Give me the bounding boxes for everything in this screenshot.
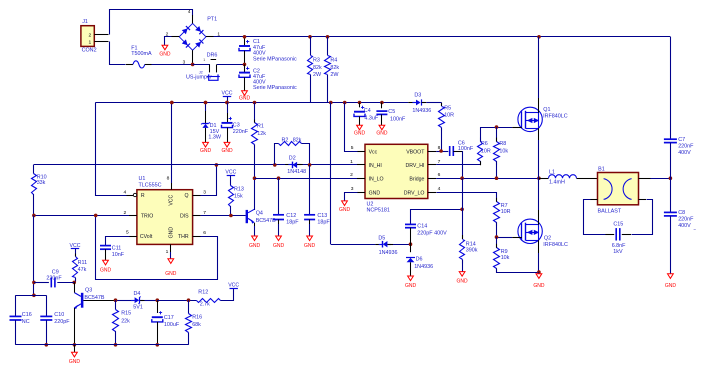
U1 pin7 DIS lead: [193, 215, 201, 217]
zener D4 5V1: [131, 300, 134, 302]
svg-text:33k: 33k: [37, 180, 46, 186]
wire Q3 collector: [74, 282, 76, 292]
svg-text:B1: B1: [598, 167, 605, 173]
capacitor C10 220pF: [46, 295, 48, 316]
ground right column: [668, 274, 674, 279]
svg-text:18pF: 18pF: [286, 220, 299, 226]
ground R14: [459, 272, 465, 277]
svg-text:PT1: PT1: [207, 17, 217, 23]
ground D6: [408, 276, 414, 281]
svg-text:5V1: 5V1: [133, 304, 143, 310]
U1 pin2 TRIG lead: [129, 215, 137, 217]
svg-text:2: 2: [88, 32, 91, 38]
svg-text:GND: GND: [165, 271, 177, 277]
svg-text:82k: 82k: [293, 138, 302, 144]
wire Q4 collector: [254, 208, 256, 211]
jumper DR6 stub left: [209, 64, 211, 72]
svg-text:IRF840LC: IRF840LC: [543, 242, 568, 248]
svg-text:C13: C13: [317, 213, 327, 219]
svg-text:Q: Q: [185, 193, 189, 199]
svg-text:100nF: 100nF: [458, 146, 474, 152]
svg-text:CVolt: CVolt: [140, 234, 153, 240]
svg-text:IN_LO: IN_LO: [369, 177, 384, 183]
U1 pin8 riser to VCC rail: [170, 101, 174, 105]
capacitor C7 220nF 400V: [664, 138, 677, 140]
wire TRIG line: [34, 215, 129, 217]
junction R11 C9 Q3: [72, 281, 76, 285]
U2 pin5 lead: [357, 151, 365, 153]
svg-text:10R: 10R: [501, 209, 511, 215]
svg-text:2.7k: 2.7k: [200, 302, 210, 308]
svg-text:6.8nF: 6.8nF: [612, 243, 626, 249]
wire rail left drop to U1 reset: [96, 103, 127, 196]
svg-text:C7: C7: [678, 137, 685, 143]
wire Q2 drain from bridge node: [538, 178, 540, 210]
capacitor C6 100nF: [449, 146, 451, 156]
svg-text:7: 7: [438, 159, 441, 165]
svg-text:100nF: 100nF: [390, 116, 406, 122]
wire fuse to bridge bottom: [152, 64, 193, 66]
wire Q3 base line: [83, 300, 115, 302]
svg-text:R5: R5: [444, 106, 451, 112]
wire VCC rail: [95, 102, 408, 104]
wire bridge output B+ rail: [214, 36, 671, 38]
svg-text:C3: C3: [233, 123, 240, 129]
wire Q2 source to ground: [538, 240, 540, 253]
svg-text:C10: C10: [54, 312, 64, 318]
ground C5: [379, 125, 385, 130]
svg-text:D4: D4: [134, 291, 141, 297]
svg-text:C1: C1: [253, 39, 260, 45]
svg-text:82k: 82k: [330, 65, 339, 71]
svg-text:R7: R7: [501, 203, 508, 209]
svg-text:NCP5181: NCP5181: [367, 208, 390, 214]
svg-text:GND: GND: [369, 190, 381, 196]
U1 pin3 Q lead: [193, 195, 201, 197]
diode D5 1N4936: [375, 244, 382, 246]
wire DRV_HI to R6: [436, 164, 480, 166]
svg-text:DR6: DR6: [207, 52, 218, 58]
U2 pin6 lead: [428, 178, 436, 180]
svg-text:Bridge: Bridge: [409, 177, 424, 183]
svg-text:J1: J1: [82, 19, 88, 25]
svg-text:GND: GND: [69, 359, 81, 365]
U1 pin6 THR lead: [193, 236, 201, 238]
svg-text:IRF840LC: IRF840LC: [543, 114, 568, 120]
U1 pin5 CVolt lead: [129, 236, 137, 238]
junction C1/C2 mid: [243, 63, 247, 67]
svg-text:1: 1: [350, 159, 353, 165]
wire J1 pin1 to fuse: [110, 42, 126, 65]
IC U2 NCP5181: [365, 144, 428, 198]
resistor R12 2.7k: [197, 299, 221, 303]
svg-text:US-jumper: US-jumper: [186, 74, 212, 80]
svg-text:DRV_LO: DRV_LO: [404, 190, 425, 196]
wire ballast lower-right loop: [639, 199, 647, 201]
svg-text:5: 5: [126, 230, 129, 236]
transistor Q3 BC547B: [81, 293, 84, 308]
svg-text:GND: GND: [159, 51, 171, 57]
svg-text:R4: R4: [330, 58, 337, 64]
svg-text:U2: U2: [367, 201, 374, 207]
capacitor C12 18pF: [277, 176, 281, 180]
svg-text:BALLAST: BALLAST: [598, 208, 622, 214]
svg-text:1N4936: 1N4936: [414, 264, 433, 270]
resistor R11 47k: [73, 257, 78, 278]
ground C12: [276, 236, 282, 241]
svg-text:220nF: 220nF: [678, 144, 694, 150]
svg-text:1.4mH: 1.4mH: [549, 179, 565, 185]
wire Q up to IN_HI line: [201, 165, 217, 196]
svg-text:Serie MPanasonic: Serie MPanasonic: [253, 85, 297, 91]
wire GND3: [345, 193, 358, 201]
svg-text:400V: 400V: [678, 150, 691, 156]
svg-text:C17: C17: [164, 315, 174, 321]
svg-text:2: 2: [350, 172, 353, 178]
bridge top lead: [192, 15, 194, 23]
capacitor C8 220nF 400V: [664, 211, 677, 213]
svg-text:VCC: VCC: [225, 170, 236, 176]
svg-text:C14: C14: [417, 223, 427, 229]
junction D5 D6 C14: [409, 242, 413, 246]
resistor R14 390k: [462, 178, 464, 209]
svg-text:5: 5: [351, 145, 354, 151]
svg-text:GND: GND: [100, 267, 112, 273]
diode D2 1N4148: [285, 164, 292, 166]
svg-text:8: 8: [167, 175, 170, 181]
svg-text:3: 3: [351, 186, 354, 192]
wire IN_HI line: [34, 164, 365, 166]
svg-text:68k: 68k: [192, 322, 201, 328]
svg-text:10nF: 10nF: [112, 252, 125, 258]
svg-text:R1: R1: [257, 124, 264, 130]
ground Q2 source: [538, 272, 540, 274]
resistor R6 10R: [480, 161, 482, 165]
ground D1: [203, 142, 209, 147]
svg-text:D6: D6: [416, 256, 423, 262]
wire to D5: [331, 244, 376, 246]
ground U1 pin1: [168, 259, 174, 264]
wire Q1 drain from B+ rail: [537, 35, 541, 39]
svg-text:1N4936: 1N4936: [412, 108, 431, 114]
svg-text:4.3uF: 4.3uF: [364, 115, 378, 121]
bridge left lead: [172, 36, 180, 38]
svg-text:C5: C5: [388, 109, 395, 115]
U2 pin1 lead: [357, 164, 365, 166]
svg-text:C15: C15: [613, 222, 623, 228]
svg-text:GND: GND: [665, 283, 677, 289]
svg-text:1kV: 1kV: [613, 249, 623, 255]
svg-text:R: R: [141, 193, 145, 199]
svg-text:1: 1: [203, 58, 205, 62]
svg-text:R6: R6: [481, 141, 488, 147]
svg-text:220pF: 220pF: [54, 319, 70, 325]
svg-text:Serie MPanasonic: Serie MPanasonic: [253, 56, 297, 62]
svg-text:C4: C4: [364, 108, 371, 114]
bridge rectifier PT1: [179, 23, 206, 50]
resistor R1 12k: [253, 101, 257, 105]
svg-text:220nF: 220nF: [46, 276, 62, 282]
wire Vcc riser to rail: [343, 101, 347, 105]
U2 pin4 lead: [428, 192, 436, 194]
svg-text:C12: C12: [286, 213, 296, 219]
svg-text:4: 4: [123, 190, 126, 196]
svg-text:C11: C11: [112, 245, 122, 251]
svg-text:1: 1: [88, 40, 91, 46]
MOSFET Q2 IRF840LC: [518, 219, 542, 243]
capacitor C17 100uF: [156, 298, 160, 302]
svg-text:VBOOT: VBOOT: [406, 149, 425, 155]
svg-text:C9: C9: [52, 269, 59, 275]
wire bottom rail: [16, 344, 189, 346]
capacitor C14 220pF 400V: [405, 223, 416, 225]
U1 pin4 bubble: [133, 193, 136, 196]
capacitor C3 220nF: [225, 101, 229, 105]
lamp B1 BALLAST: [598, 173, 639, 205]
U2 pin3 lead: [357, 192, 365, 194]
svg-text:82k: 82k: [313, 65, 322, 71]
capacitor C9 220nF: [34, 282, 49, 284]
wire J1 pin2 to bridge top: [110, 10, 193, 35]
svg-text:100uF: 100uF: [164, 322, 180, 328]
svg-text:GND: GND: [405, 283, 417, 289]
svg-text:TRIO: TRIO: [141, 213, 153, 219]
svg-text:C16: C16: [22, 312, 32, 318]
svg-text:GND: GND: [200, 148, 212, 154]
svg-text:GND: GND: [239, 96, 251, 102]
svg-text:400V: 400V: [678, 223, 691, 229]
svg-text:220pF 400V: 220pF 400V: [417, 231, 447, 237]
svg-text:Q2: Q2: [544, 235, 551, 241]
fuse F1 T500mA: [126, 64, 133, 66]
svg-text:Q1: Q1: [543, 107, 550, 113]
transistor Q4 BC547B: [246, 210, 248, 223]
wire DIS line: [201, 215, 246, 217]
bridge bottom lead: [192, 50, 194, 64]
svg-text:IN_HI: IN_HI: [369, 163, 382, 169]
svg-text:2W: 2W: [313, 72, 322, 78]
svg-text:TLC555C: TLC555C: [139, 182, 162, 188]
svg-text:18pF: 18pF: [317, 220, 330, 226]
wire TRIG down to timing node: [33, 215, 35, 295]
resistor R5 10R: [441, 103, 443, 107]
zener D1 15V 1.3W: [204, 101, 208, 105]
connector J1: [81, 26, 94, 47]
wire bridge AC2 to ground: [165, 37, 172, 46]
wire gate1 line: [480, 127, 512, 129]
resistor R3 82k 2W: [308, 35, 312, 39]
wire C6 down to bridge node: [462, 151, 464, 178]
svg-text:GND: GND: [169, 227, 175, 239]
inductor L1 1.4mH: [539, 178, 549, 180]
svg-text:Q3: Q3: [85, 287, 92, 293]
svg-text:VCC: VCC: [169, 194, 175, 205]
svg-text:VCC: VCC: [222, 91, 233, 97]
diode D6 1N4936: [410, 244, 412, 252]
U2 pin2 lead: [357, 178, 365, 180]
wire ballast right pin to C7/C8: [639, 178, 651, 180]
svg-text:R12: R12: [198, 290, 208, 296]
capacitor C13 18pF: [308, 163, 312, 167]
svg-text:1.3W: 1.3W: [208, 135, 221, 141]
ground C13: [307, 236, 313, 241]
svg-text:R11: R11: [78, 260, 88, 266]
svg-text:GND: GND: [457, 279, 469, 285]
jumper DR6 closed bar: [211, 59, 217, 61]
svg-text:47k: 47k: [78, 267, 87, 273]
wire C14 branch: [411, 210, 463, 225]
svg-text:R15: R15: [121, 311, 131, 317]
ground C11: [103, 260, 109, 265]
wire VBOOT node: [436, 151, 448, 153]
svg-text:R8: R8: [499, 141, 506, 147]
svg-text:D5: D5: [378, 235, 385, 241]
resistor R7 10R: [494, 202, 500, 223]
svg-text:4: 4: [188, 9, 191, 14]
svg-text:4: 4: [438, 186, 441, 192]
svg-text:10k: 10k: [499, 148, 508, 154]
svg-text:THR: THR: [178, 234, 189, 240]
svg-text:3: 3: [203, 189, 206, 195]
jumper US-jumper bracket: [209, 74, 218, 80]
wire THR tie to TRIG: [96, 216, 218, 280]
capacitor C16 NC: [15, 295, 17, 316]
wire base line to R16 R12: [157, 300, 196, 302]
jumper DR6 stub right: [216, 64, 218, 72]
wire ballast lower-left loop: [590, 199, 598, 201]
svg-text:Vcc: Vcc: [369, 149, 378, 155]
svg-text:NC: NC: [22, 319, 30, 325]
wire jumper to C1 mid: [217, 64, 245, 66]
svg-text:12k: 12k: [257, 131, 266, 137]
svg-text:C8: C8: [678, 210, 685, 216]
junction dots misc: [170, 101, 174, 105]
U1 pin1 GND lead: [170, 244, 172, 252]
svg-text:R13: R13: [234, 187, 244, 193]
svg-text:2W: 2W: [330, 72, 339, 78]
ground C3: [224, 142, 230, 147]
wire bridge bottom to jumper: [193, 64, 210, 66]
svg-text:GND: GND: [273, 243, 285, 249]
capacitor C1: [244, 39, 246, 47]
svg-text:T500mA: T500mA: [131, 51, 152, 57]
capacitor C15 6.8nF 1kV: [605, 234, 614, 236]
wire right column from B+ rail: [670, 37, 672, 139]
ground Q4: [252, 236, 258, 241]
svg-text:D2: D2: [289, 155, 296, 161]
svg-text:GND: GND: [354, 130, 366, 136]
resistor R2 82k: [273, 163, 277, 167]
IC U1 TLC555C: [137, 190, 193, 245]
wire timing node to C16/C10: [16, 295, 47, 297]
svg-text:D3: D3: [414, 92, 421, 98]
svg-text:10k: 10k: [501, 255, 510, 261]
svg-text:U1: U1: [139, 176, 146, 182]
svg-text:390k: 390k: [466, 247, 478, 253]
svg-text:L1: L1: [549, 170, 555, 176]
wire DRV_LO to R7: [437, 193, 497, 202]
resistor R16 68k: [187, 298, 191, 302]
ground bridge input: [162, 45, 168, 50]
svg-text:R2: R2: [282, 138, 289, 144]
capacitor C2: [244, 64, 246, 72]
svg-text:22k: 22k: [121, 318, 130, 324]
wire CVolt to C11: [106, 237, 130, 246]
svg-text:GND: GND: [304, 243, 316, 249]
wire L1 to ballast: [577, 178, 591, 180]
wire Q4 emitter to ground: [254, 226, 256, 236]
svg-text:Q4: Q4: [256, 211, 263, 217]
svg-text:GND: GND: [249, 243, 261, 249]
svg-text:220nF: 220nF: [678, 217, 694, 223]
U2 pin8 lead: [428, 151, 436, 153]
wire gate2 line: [497, 237, 513, 239]
svg-text:R3: R3: [313, 58, 320, 64]
wire Bridge node line: [436, 178, 539, 180]
resistor R8 10k: [496, 127, 498, 142]
svg-text:6: 6: [438, 172, 441, 178]
wire Q1 source to bridge node: [538, 128, 540, 140]
ground U2 pin3: [342, 201, 348, 206]
wire R1 down to IN_LO and Q4: [254, 145, 256, 211]
svg-text:GND: GND: [376, 130, 388, 136]
svg-text:15k: 15k: [234, 194, 243, 200]
svg-text:CON2: CON2: [82, 47, 97, 53]
svg-text:VCC: VCC: [228, 283, 239, 289]
svg-text:3: 3: [183, 59, 186, 64]
ground bottom rail: [74, 345, 76, 353]
svg-text:6: 6: [203, 230, 206, 236]
diode D3 1N4936: [408, 102, 416, 104]
resistor R13 15k: [229, 186, 234, 207]
svg-text:GND: GND: [339, 207, 351, 213]
svg-text:1N4936: 1N4936: [379, 250, 398, 256]
MOSFET Q1 IRF840LC: [518, 107, 542, 131]
svg-text:1: 1: [166, 249, 169, 255]
svg-text:10R: 10R: [481, 148, 491, 154]
svg-text:R16: R16: [192, 315, 202, 321]
svg-text:DIS: DIS: [180, 213, 189, 219]
resistor R10 33k: [33, 165, 35, 174]
U1 pin4 lead: [127, 195, 134, 197]
wire IN_LO line: [255, 178, 366, 180]
capacitor C11 10nF: [100, 245, 111, 247]
U2 pin7 lead: [428, 164, 436, 166]
wire R12 to VCC: [221, 289, 234, 301]
resistor R15 22k: [114, 298, 118, 302]
svg-text:GND: GND: [221, 148, 233, 154]
bridge right lead: [206, 36, 214, 38]
ground C2: [242, 91, 248, 96]
svg-text:DRV_HI: DRV_HI: [405, 163, 424, 169]
J1 pin 2 stub: [94, 34, 108, 36]
svg-text:220nF: 220nF: [233, 129, 249, 135]
ground C4: [357, 125, 363, 130]
wire long vertical from VCC rail: [329, 101, 333, 105]
svg-text:1N4148: 1N4148: [287, 169, 306, 175]
junction C1 top: [243, 35, 247, 39]
junction bridge bottom: [191, 63, 195, 67]
resistor R9 10k: [496, 237, 498, 248]
resistor R4 82k 2W: [326, 35, 330, 39]
svg-text:R9: R9: [501, 249, 508, 255]
J1 pin 1 stub: [94, 41, 108, 43]
svg-text:GND: GND: [533, 283, 545, 289]
wire Q3 emitter: [74, 308, 76, 345]
svg-text:10R: 10R: [444, 113, 454, 119]
capacitor C5 100nF: [380, 101, 384, 105]
capacitor C4 4.3uF: [358, 101, 362, 105]
